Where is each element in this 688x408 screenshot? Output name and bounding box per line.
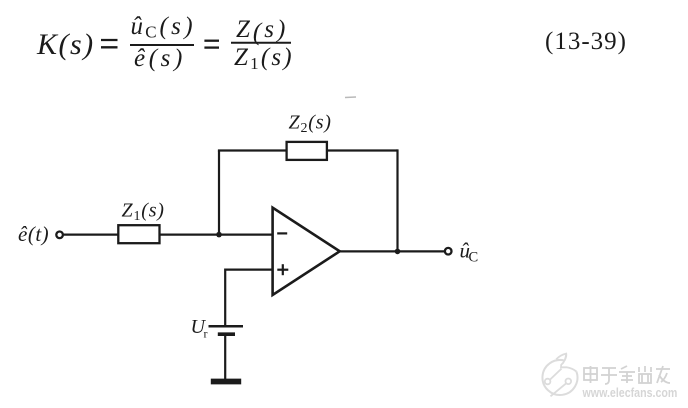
wire input to Z1: [64, 234, 118, 236]
op-amp plus sign: [277, 264, 288, 275]
svg-text:ê(t): ê(t): [18, 222, 49, 246]
svg-text:(13-39): (13-39): [545, 28, 627, 55]
ground symbol: [211, 379, 241, 385]
watermark text dianzifashaoyou (simulated CJK strokes): [584, 366, 670, 384]
input terminal circle: [56, 232, 63, 239]
watermark logo circle: [542, 354, 577, 397]
wire Z1 to op-amp minus input: [160, 234, 273, 236]
equals sign 2: [204, 41, 219, 48]
junction node at output: [395, 249, 401, 255]
svg-text:Z2(s): Z2(s): [289, 112, 332, 137]
svg-text:r: r: [204, 327, 208, 341]
output terminal circle: [445, 248, 452, 255]
wire feedback left vertical: [218, 151, 220, 235]
scan speck dash: [345, 96, 356, 99]
svg-text:Z(s): Z(s): [236, 16, 288, 46]
svg-text:www.elecfans.com: www.elecfans.com: [582, 385, 678, 400]
svg-text:ê(s): ê(s): [134, 45, 186, 72]
wire op-amp output: [340, 250, 445, 252]
fraction 1 numerator u_C(s): [131, 13, 197, 42]
svg-text:K(s): K(s): [36, 28, 95, 61]
wire feedback top right: [327, 149, 398, 151]
wire feedback right vertical: [396, 149, 398, 251]
wire feedback top left: [218, 149, 287, 151]
svg-text:C: C: [469, 250, 479, 266]
battery Ur long plate: [209, 325, 244, 328]
junction node at inverting input: [216, 232, 222, 238]
battery Ur short plate: [218, 332, 235, 336]
svg-text:Z1(s): Z1(s): [234, 44, 294, 73]
op-amp triangle: [273, 208, 340, 295]
svg-text:ûC(s): ûC(s): [131, 13, 197, 42]
op-amp minus sign: [277, 232, 287, 234]
fraction 1 bar: [130, 44, 194, 46]
resistor Z1 box: [118, 225, 159, 243]
wire plus input horizontal: [225, 269, 272, 271]
wire battery to ground: [224, 334, 226, 379]
wire plus input vertical down to battery: [224, 269, 226, 327]
equals sign 1: [101, 40, 118, 47]
svg-text:Z1(s): Z1(s): [122, 200, 165, 225]
fraction 2 bar: [231, 42, 291, 44]
resistor Z2 box: [287, 142, 327, 160]
